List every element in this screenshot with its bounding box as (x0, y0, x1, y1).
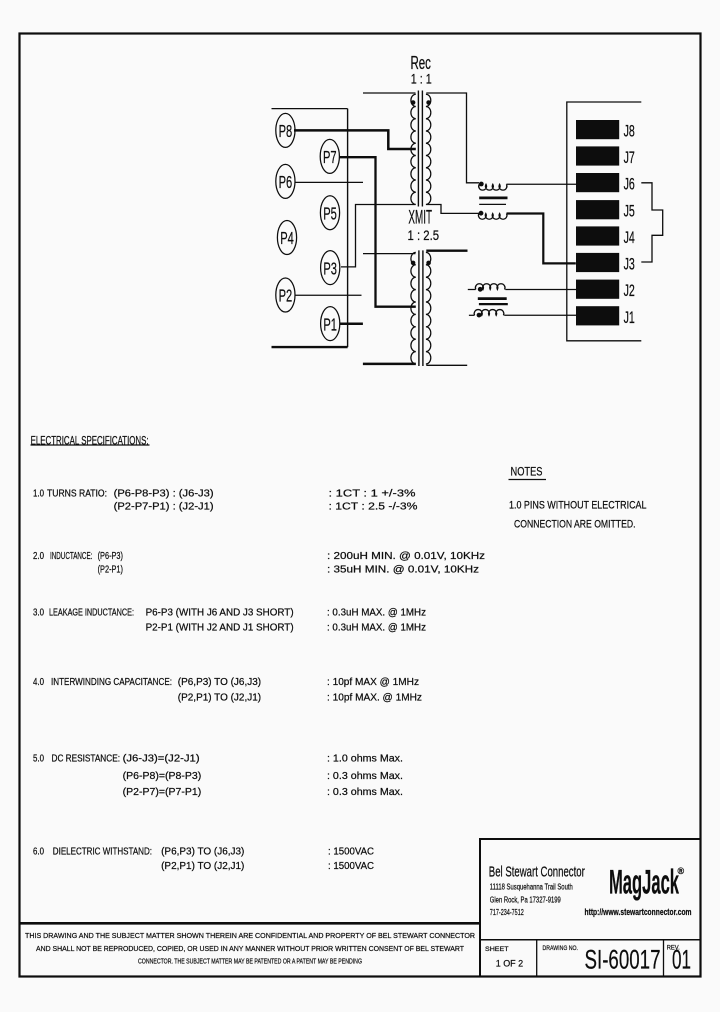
J-connector body outline (567, 102, 642, 341)
svg-text:P4: P4 (280, 228, 294, 248)
svg-text:(P2-P7)=(P7-P1): (P2-P7)=(P7-P1) (123, 787, 202, 798)
svg-text:(P2,P1) TO (J2,J1): (P2,P1) TO (J2,J1) (161, 861, 244, 872)
wire choke T4 winding B to J1 (504, 314, 576, 316)
choke T4 winding B (474, 310, 504, 316)
svg-text:(P6-P8)=(P8-P3): (P6-P8)=(P8-P3) (123, 771, 202, 782)
svg-text:: 0.3 ohms Max.: : 0.3 ohms Max. (327, 787, 403, 798)
svg-text:(P2-P7-P1) : (J2-J1): (P2-P7-P1) : (J2-J1) (114, 502, 214, 513)
svg-text:(P6,P3) TO (J6,J3): (P6,P3) TO (J6,J3) (161, 847, 244, 858)
svg-text:DRAWING NO.: DRAWING NO. (543, 945, 579, 952)
svg-text:1.0: 1.0 (33, 489, 44, 500)
svg-text:: 1500VAC: : 1500VAC (328, 847, 374, 858)
transformer T1 secondary winding (426, 94, 431, 204)
disclaimer box (19, 922, 480, 925)
svg-text:(P2,P1) TO (J2,J1): (P2,P1) TO (J2,J1) (178, 693, 261, 704)
svg-text:P2: P2 (279, 286, 293, 306)
contact pad J7 (576, 146, 619, 165)
svg-text:DC RESISTANCE:: DC RESISTANCE: (52, 754, 121, 765)
svg-text:AND SHALL NOT BE REPRODUCED, C: AND SHALL NOT BE REPRODUCED, COPIED, OR … (36, 944, 464, 953)
svg-text:DIELECTRIC WITHSTAND:: DIELECTRIC WITHSTAND: (53, 847, 152, 858)
choke T2 winding B (478, 214, 507, 220)
wire P-connector bracket top (272, 108, 348, 110)
svg-text:: 0.3 ohms Max.: : 0.3 ohms Max. (327, 771, 403, 782)
svg-text:J7: J7 (624, 149, 635, 167)
note 1.0 text (509, 500, 647, 531)
choke T2 core (479, 197, 507, 200)
svg-text:(P2-P1): (P2-P1) (98, 565, 123, 576)
svg-text:NOTES: NOTES (511, 467, 543, 479)
svg-text:6.0: 6.0 (33, 847, 44, 858)
wire P-connector bracket vertical bus (347, 109, 349, 348)
contact pad J6 (576, 173, 619, 192)
wire choke T2 winding B to J3 (507, 214, 576, 264)
wire T3 secondary top lead (426, 249, 467, 251)
svg-text:: 200uH MIN. @ 0.01V, 10KHz: : 200uH MIN. @ 0.01V, 10KHz (327, 551, 485, 562)
transformer T1 primary winding (411, 94, 416, 204)
wire P-connector bracket bottom (272, 346, 348, 348)
svg-text:J6: J6 (624, 176, 635, 194)
svg-text:P8: P8 (279, 121, 293, 141)
svg-text:J2: J2 (624, 282, 635, 300)
wire T1 secondary bottom lead to choke T2 (426, 205, 479, 214)
svg-text:SHEET: SHEET (485, 946, 509, 953)
wire choke T4 winding A input stub (468, 289, 476, 291)
svg-text:: 10pf MAX @ 1MHz: : 10pf MAX @ 1MHz (327, 677, 419, 688)
wire J6-J3 pair bracket (641, 183, 662, 262)
wire choke T2 winding A to J6 (506, 183, 576, 185)
svg-text:J8: J8 (624, 123, 635, 141)
svg-text:P5: P5 (323, 203, 337, 223)
contact pad J1 (576, 306, 619, 325)
contact pad J4 (576, 226, 619, 245)
spec text block (33, 489, 485, 873)
svg-text:LEAKAGE INDUCTANCE:: LEAKAGE INDUCTANCE: (49, 608, 134, 619)
choke T4 winding A phase dot (478, 287, 483, 292)
pin P1 (321, 307, 340, 341)
svg-text:5.0: 5.0 (33, 754, 44, 765)
svg-text:INDUCTANCE:: INDUCTANCE: (50, 551, 92, 562)
transformer T3 secondary phase dot (426, 261, 431, 266)
svg-text:(P6-P3): (P6-P3) (98, 551, 123, 562)
svg-text:: 10pf MAX. @ 1MHz: : 10pf MAX. @ 1MHz (327, 693, 422, 704)
wire P3 to T1 primary bottom (341, 205, 416, 267)
svg-text:1 : 2.5: 1 : 2.5 (408, 228, 440, 243)
logo MagJack (609, 864, 685, 902)
pin P5 (320, 196, 339, 230)
transformer T3 primary phase dot (411, 261, 416, 266)
choke T4 core (478, 297, 507, 300)
wire T3 primary top lead (363, 253, 416, 255)
svg-text:3.0: 3.0 (33, 608, 44, 619)
contact pad J8 (576, 120, 619, 139)
svg-text:Glen Rock, Pa 17327-9199: Glen Rock, Pa 17327-9199 (490, 894, 561, 904)
svg-text:CONNECTOR. THE SUBJECT MATTER: CONNECTOR. THE SUBJECT MATTER MAY BE PAT… (138, 957, 362, 966)
svg-text:MagJack: MagJack (609, 864, 679, 902)
svg-text:: 0.3uH MAX. @ 1MHz: : 0.3uH MAX. @ 1MHz (327, 608, 426, 619)
svg-text:(J6-J3)=(J2-J1): (J6-J3)=(J2-J1) (123, 754, 200, 765)
svg-text:: 1CT : 2.5 -/-3%: : 1CT : 2.5 -/-3% (329, 502, 418, 513)
choke T4 winding B phase dot (477, 313, 482, 318)
svg-text:P6-P3 (WITH J6 AND J3 SHORT): P6-P3 (WITH J6 AND J3 SHORT) (146, 608, 294, 619)
disclaimer text (25, 931, 475, 965)
pin P6 (276, 164, 295, 198)
svg-text:THIS DRAWING AND THE SUBJECT M: THIS DRAWING AND THE SUBJECT MATTER SHOW… (25, 931, 475, 940)
svg-text:4.0: 4.0 (33, 677, 44, 688)
svg-text:: 35uH MIN. @ 0.01V, 10KHz: : 35uH MIN. @ 0.01V, 10KHz (327, 565, 479, 576)
svg-text:http://www.stewartconnector.co: http://www.stewartconnector.com (585, 907, 692, 917)
wire P7 to T3 primary center tap (339, 157, 416, 307)
svg-text:XMIT: XMIT (408, 207, 432, 229)
svg-text:CONNECTION ARE OMITTED.: CONNECTION ARE OMITTED. (514, 519, 636, 531)
wire P2 stub (295, 294, 362, 296)
wire P8 to T1 primary center tap (294, 130, 416, 149)
svg-text:TURNS RATIO:: TURNS RATIO: (47, 489, 107, 500)
choke T2 winding B phase dot (479, 211, 484, 216)
pin P7 (320, 139, 339, 173)
wire P1 stub (340, 322, 363, 325)
svg-text:J3: J3 (624, 256, 635, 274)
transformer T3 secondary winding (426, 252, 431, 364)
choke T4 winding A (475, 284, 505, 290)
transformer T3 core (419, 250, 423, 366)
svg-text:J5: J5 (624, 203, 635, 221)
svg-text:Bel Stewart Connector: Bel Stewart Connector (489, 865, 585, 881)
contact pad J2 (576, 280, 619, 299)
svg-text:P1: P1 (323, 314, 337, 334)
contact pad J3 (576, 253, 619, 272)
title block frame (480, 839, 701, 977)
svg-text:P3: P3 (323, 258, 337, 278)
pin P4 (277, 221, 296, 255)
svg-text:2.0: 2.0 (33, 551, 44, 562)
svg-text:(P6-P8-P3) : (J6-J3): (P6-P8-P3) : (J6-J3) (114, 489, 214, 500)
transformer T1 primary phase dot (411, 100, 416, 105)
pin P2 (276, 278, 295, 312)
wire P6 stub (295, 181, 363, 183)
wire T1 primary top lead (363, 92, 416, 94)
choke T2 winding A (479, 184, 507, 190)
svg-text:1.0 PINS WITHOUT ELECTRICAL: 1.0 PINS WITHOUT ELECTRICAL (509, 500, 647, 512)
svg-text:®: ® (678, 866, 685, 876)
svg-text:: 0.3uH MAX. @ 1MHz: : 0.3uH MAX. @ 1MHz (327, 623, 426, 634)
svg-text:P6: P6 (279, 172, 293, 192)
pin P3 (321, 251, 340, 285)
transformer T1 secondary phase dot (426, 100, 431, 105)
svg-text:P7: P7 (323, 147, 337, 167)
svg-text:P2-P1 (WITH J2 AND J1 SHORT): P2-P1 (WITH J2 AND J1 SHORT) (146, 623, 294, 634)
svg-text:01: 01 (672, 945, 691, 975)
wire T3 secondary bottom lead (426, 364, 467, 366)
svg-text:1 OF 2: 1 OF 2 (496, 959, 524, 970)
transformer T3 primary winding (411, 252, 416, 364)
pin P8 (276, 113, 295, 147)
svg-text:: 1CT : 1 +/-3%: : 1CT : 1 +/-3% (329, 489, 416, 500)
wire choke T4 winding A to J2 (505, 289, 576, 291)
svg-text:11118 Susquehanna Trail South: 11118 Susquehanna Trail South (490, 882, 573, 892)
svg-text:(P6,P3) TO (J6,J3): (P6,P3) TO (J6,J3) (178, 677, 261, 688)
svg-text:INTERWINDING CAPACITANCE:: INTERWINDING CAPACITANCE: (51, 677, 172, 688)
wire T3 primary bottom lead (363, 363, 416, 366)
svg-text:J4: J4 (624, 229, 635, 247)
svg-text:1 : 1: 1 : 1 (411, 71, 432, 87)
svg-text:717-234-7512: 717-234-7512 (490, 907, 524, 917)
svg-text:: 1.0 ohms Max.: : 1.0 ohms Max. (327, 754, 403, 765)
svg-text:: 1500VAC: : 1500VAC (328, 861, 374, 872)
wire choke T4 winding B input stub (469, 314, 475, 316)
contact pad J5 (576, 200, 619, 219)
svg-text:SI-60017: SI-60017 (585, 945, 661, 975)
choke T2 winding A phase dot (479, 182, 484, 187)
transformer T1 core (418, 91, 422, 207)
wire T1 secondary top lead to choke T2 (426, 93, 479, 183)
svg-text:J1: J1 (624, 309, 635, 327)
